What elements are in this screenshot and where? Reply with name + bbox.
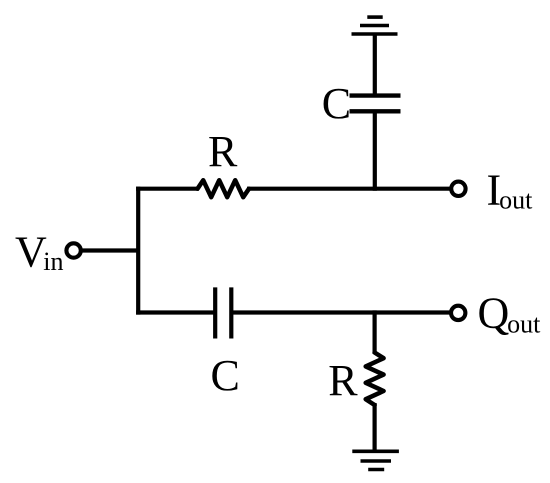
svg-text:R: R [208, 127, 238, 176]
svg-text:C: C [322, 79, 351, 128]
wire: resistor R to bottom ground [373, 403, 377, 451]
wire: top junction to capacitor C [373, 110, 377, 191]
resistor R (bottom) [366, 353, 384, 406]
wire: Vin terminal to vertical bus [82, 248, 140, 252]
wire: bottom branch right segment [231, 310, 450, 314]
wire: bottom junction to resistor R [373, 310, 377, 354]
capacitor C (top) [350, 96, 401, 112]
wire: capacitor C to top ground [373, 34, 377, 96]
wire: bottom branch left segment [136, 310, 215, 314]
terminal Iout [451, 182, 465, 196]
wire: vertical bus [136, 187, 140, 315]
svg-text:C: C [211, 351, 240, 400]
wire: top branch left segment [136, 187, 199, 191]
terminal Qout [451, 306, 465, 320]
svg-text:Vin: Vin [15, 227, 64, 276]
ground (top, inverted) [352, 17, 398, 34]
svg-text:R: R [328, 356, 358, 405]
terminal Vin [66, 243, 80, 257]
resistor R (top) [198, 180, 250, 197]
wire: top branch right segment [247, 187, 450, 191]
ground (bottom) [352, 451, 399, 469]
capacitor C (bottom) [215, 287, 231, 338]
svg-text:Iout: Iout [487, 165, 534, 214]
svg-text:Qout: Qout [478, 289, 542, 339]
